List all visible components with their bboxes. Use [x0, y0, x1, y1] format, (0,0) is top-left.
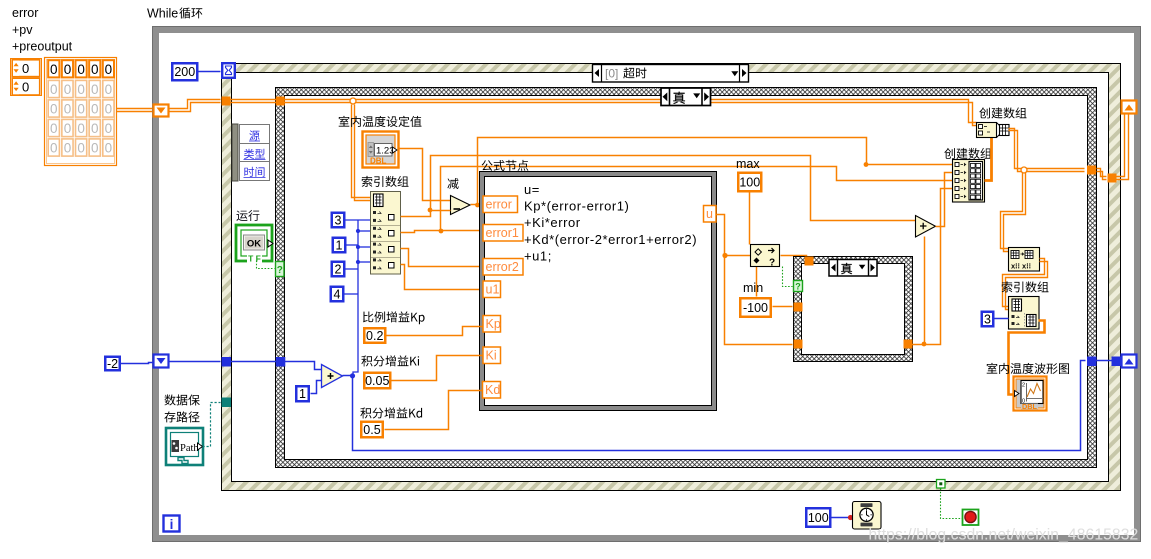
blue shift register (left)	[154, 355, 169, 368]
constant 1	[333, 238, 346, 253]
wait (ms) node	[853, 502, 882, 530]
wire 200 to timeout	[199, 71, 221, 73]
2D array wire event-to-case	[231, 99, 277, 101]
constant 200	[172, 63, 197, 80]
formula terminal u (output)	[704, 206, 717, 223]
svg-text:+preoutput: +preoutput	[12, 40, 73, 54]
increment node (+1)	[322, 365, 343, 388]
formula terminal error	[483, 196, 518, 213]
wire 1 to increment	[311, 381, 322, 394]
label 索引数组 (right)	[1002, 281, 1049, 292]
wire add out to build array	[936, 173, 953, 227]
svg-text:max: max	[736, 157, 760, 171]
svg-text:0: 0	[77, 62, 85, 77]
formula terminal u1	[483, 281, 501, 298]
svg-text:3: 3	[984, 312, 991, 326]
wire u down to inner case	[725, 256, 793, 345]
svg-text:0.05: 0.05	[365, 374, 389, 388]
boolean wire coerce to inner selector	[783, 267, 793, 287]
event data node fields	[240, 125, 270, 181]
svg-text:x⁝⁝ x⁝⁝: x⁝⁝ x⁝⁝	[1011, 262, 1031, 271]
constant 0.2	[364, 328, 385, 343]
wire 0.05 to Ki	[392, 356, 483, 381]
svg-text:1.23: 1.23	[376, 146, 395, 157]
svg-text:0: 0	[77, 102, 85, 117]
boolean OK button control	[236, 225, 273, 264]
wire 0.5 to Kd	[385, 391, 483, 430]
blue tunnel case right (i wire)	[1087, 357, 1097, 367]
wire build array out to upper	[985, 138, 992, 181]
constant 100 (max)	[738, 173, 761, 192]
label 创建数组 (upper)	[979, 107, 1026, 118]
svg-text:DBL: DBL	[370, 157, 387, 166]
svg-text:Kd: Kd	[485, 383, 500, 397]
wire -100 to coerce	[756, 267, 758, 297]
svg-text:0: 0	[77, 141, 85, 156]
junction increment out	[350, 373, 355, 378]
svg-text:0: 0	[91, 62, 99, 77]
svg-text:Ki: Ki	[486, 349, 497, 363]
label 索引数组 (left)	[362, 176, 409, 187]
svg-text:-100: -100	[743, 301, 768, 315]
wire -2 to shift register	[121, 363, 153, 364]
svg-text:0: 0	[105, 141, 113, 156]
svg-text:+Ki*error: +Ki*error	[524, 215, 581, 230]
svg-text:0: 0	[91, 82, 99, 97]
svg-text:4: 4	[334, 287, 341, 301]
label 室内温度设定值	[339, 116, 422, 127]
inner case selector terminal [?]	[794, 281, 803, 292]
svg-text:https://blog.csdn.net/weixin_4: https://blog.csdn.net/weixin_48615832	[869, 527, 1139, 544]
event timeout terminal (hourglass)	[222, 63, 235, 78]
2D wire event to shift register	[1117, 115, 1125, 177]
svg-text:0: 0	[50, 121, 58, 136]
label 公式节点	[482, 160, 529, 171]
svg-text:?: ?	[277, 265, 283, 276]
wire 100 to wait	[832, 517, 853, 519]
orange shift register (left)	[154, 105, 169, 117]
junction at build array row1	[864, 162, 869, 167]
event structure border	[222, 64, 1121, 491]
svg-text:1: 1	[336, 238, 343, 252]
svg-text:0: 0	[50, 82, 58, 97]
wire -100 to inner case tunnel	[773, 306, 793, 308]
svg-text:[0]: [0]	[605, 67, 618, 81]
wire row1 to error1	[401, 231, 483, 233]
i wire event to case	[231, 361, 277, 363]
svg-text:Kp: Kp	[486, 317, 501, 331]
junction u wire	[722, 253, 727, 258]
boolean wire OK to case selector	[257, 261, 275, 269]
stop button terminal	[963, 510, 979, 526]
formula terminal Kp	[483, 316, 501, 333]
blue tunnel on event border (i wire)	[222, 357, 232, 367]
svg-text:0: 0	[105, 82, 113, 97]
svg-text:While: While	[147, 7, 178, 21]
svg-text:0: 0	[64, 102, 72, 117]
wire 0.2 to Kp	[387, 327, 483, 336]
svg-text:1: 1	[299, 387, 306, 401]
i wire into event	[169, 361, 221, 363]
svg-text:error: error	[12, 6, 38, 20]
event selector text 超时	[623, 67, 646, 78]
case structure border	[276, 88, 1097, 468]
index wires from constants	[345, 220, 371, 375]
wire row0 up-right (to B)	[431, 156, 916, 221]
junction row0	[428, 208, 433, 213]
wire junction (array wire drop)	[350, 98, 356, 104]
2D wire interleave to index array	[1003, 259, 1045, 307]
inner case tunnel right (out)	[904, 340, 913, 349]
svg-text:0: 0	[77, 82, 85, 97]
wire subtract out to error	[471, 204, 483, 206]
interleave arrays node	[1009, 248, 1040, 272]
event data node bar	[232, 124, 238, 181]
svg-text:0: 0	[50, 62, 58, 77]
svg-text:+u1;: +u1;	[524, 248, 552, 263]
event data field 时间	[244, 167, 264, 177]
svg-text:?: ?	[769, 258, 775, 269]
junction inner case out	[922, 342, 927, 347]
event data field 类型	[244, 149, 265, 159]
svg-text:0: 0	[64, 82, 72, 97]
blue tunnel on case border (i wire)	[276, 357, 286, 367]
svg-text:0: 0	[64, 141, 72, 156]
svg-text:0: 0	[64, 62, 72, 77]
iteration terminal i	[164, 516, 180, 533]
path control 数据保存路径	[166, 428, 203, 465]
svg-text:0: 0	[77, 121, 85, 136]
inner case selector text 真	[841, 263, 852, 274]
svg-text:?: ?	[795, 282, 801, 292]
boolean tunnel on event bottom border	[937, 480, 946, 489]
constant 1 (increment)	[296, 386, 309, 401]
svg-text:0: 0	[91, 141, 99, 156]
svg-text:100: 100	[739, 175, 760, 189]
case selector label 真	[661, 88, 711, 106]
svg-text:OK: OK	[247, 239, 261, 250]
2D array control body	[45, 58, 117, 166]
waveform chart terminal	[1014, 377, 1047, 412]
orange tunnel case right	[1087, 166, 1096, 175]
constant 0.5	[361, 422, 383, 438]
blue tunnel event right (i wire)	[1112, 357, 1122, 367]
inner case selector 真	[829, 260, 877, 277]
svg-text:error: error	[486, 198, 512, 212]
teal tunnel on event border (path)	[222, 398, 232, 408]
svg-text:error1: error1	[486, 226, 519, 240]
svg-text:DBL: DBL	[1022, 402, 1038, 411]
junction 2D out	[1021, 167, 1027, 173]
svg-text:0: 0	[50, 141, 58, 156]
svg-text:0: 0	[105, 121, 113, 136]
wire u out to coerce	[717, 215, 751, 256]
i wire tunnels to shift register	[1097, 360, 1123, 362]
wire 100 to coerce	[749, 193, 751, 245]
svg-text:0: 0	[50, 102, 58, 117]
while loop border	[153, 27, 1141, 542]
svg-text:min: min	[743, 281, 763, 295]
svg-text:0: 0	[105, 102, 113, 117]
wire error net to right (A)	[478, 138, 953, 205]
numeric control 1.23 DBL	[363, 132, 399, 168]
2D wire case to event	[1097, 169, 1107, 177]
label 创建数组 (lower)	[944, 148, 991, 159]
svg-text:0: 0	[22, 61, 29, 76]
orange tunnel on case border (array wire)	[276, 97, 285, 106]
wire inner out up to add	[924, 237, 926, 345]
label 室内温度波形图	[987, 363, 1069, 374]
svg-text:+Kd*(error-2*error1+error2): +Kd*(error-2*error1+error2)	[524, 232, 697, 247]
add node	[916, 216, 936, 238]
constant 3 (right)	[982, 312, 994, 327]
label data save path line2	[164, 411, 199, 422]
case selector terminal [?]	[276, 262, 285, 277]
in range and coerce node	[751, 245, 780, 269]
svg-text:0: 0	[105, 62, 113, 77]
svg-text:0: 0	[91, 102, 99, 117]
wire row0 to subtract	[401, 211, 451, 217]
boolean wire to stop button	[941, 489, 963, 519]
constant 0.05	[364, 373, 390, 389]
constant 2	[332, 262, 345, 277]
inner case structure border	[794, 257, 913, 362]
path wire to tunnel	[203, 403, 221, 447]
constant -2	[105, 357, 120, 371]
svg-text:200: 200	[174, 65, 195, 79]
svg-text:0: 0	[64, 121, 72, 136]
label 运行	[236, 210, 259, 221]
2D array wire drop to index array	[352, 105, 371, 198]
inner case tunnel top	[805, 257, 814, 266]
index array node (right)	[1009, 297, 1040, 330]
constant 4	[331, 287, 344, 302]
formula node frame	[480, 172, 717, 411]
2D array wire across case top	[285, 100, 977, 123]
svg-text:-2: -2	[107, 357, 118, 371]
svg-text:u1: u1	[486, 283, 500, 297]
build array node (upper)	[977, 123, 1010, 138]
wire inner case out	[913, 189, 953, 345]
svg-text:u=: u=	[524, 182, 540, 197]
label 积分增益Ki	[361, 355, 419, 366]
label While loop	[179, 7, 202, 18]
svg-text:i: i	[170, 517, 174, 532]
i wire to increment	[285, 362, 322, 370]
blue shift register (right)	[1122, 355, 1137, 368]
2D array wire inside loop	[169, 100, 221, 109]
wire row3 to u1	[401, 265, 483, 290]
build array node (lower)	[953, 160, 985, 203]
svg-text:+pv: +pv	[12, 23, 33, 37]
svg-text:2: 2	[335, 262, 342, 276]
2D array wire to while loop	[117, 108, 153, 110]
inner case tunnel left (min)	[794, 303, 803, 312]
svg-text:0: 0	[22, 80, 29, 95]
label 比例增益Kp	[363, 311, 425, 324]
svg-text:Path: Path	[180, 443, 199, 454]
label 积分增益Kd	[360, 407, 422, 418]
wire row2 to error2	[401, 249, 483, 267]
svg-text:u: u	[706, 207, 713, 221]
2D wire upper build array out	[1009, 129, 1085, 169]
svg-text:Kp*(error-error1): Kp*(error-error1)	[524, 199, 629, 214]
constant -100 (min)	[740, 298, 771, 317]
svg-text:0.5: 0.5	[363, 423, 380, 437]
array index control frame	[11, 59, 42, 96]
formula terminal error2	[483, 259, 523, 276]
subtract node	[451, 196, 471, 215]
label data save path line1	[165, 394, 200, 405]
index array node	[371, 192, 401, 275]
2D wire down to interleave	[1001, 173, 1023, 249]
1D wire to waveform chart	[1009, 321, 1045, 395]
svg-text:0: 0	[91, 121, 99, 136]
i wire down and along bottom	[343, 361, 1086, 451]
label 减	[447, 178, 458, 189]
formula terminal error1	[483, 225, 523, 242]
svg-text:T F: T F	[248, 254, 261, 264]
inner case tunnel left low (u)	[794, 340, 803, 349]
formula terminal Ki	[483, 347, 501, 364]
svg-text:0.2: 0.2	[366, 329, 383, 343]
wire 3 to index array	[995, 318, 1009, 320]
coercion dot	[848, 515, 853, 520]
wire error1 up-right (C)	[441, 167, 953, 231]
formula terminal Kd	[483, 382, 501, 399]
junction subtract out	[475, 203, 480, 208]
constant 100 (wait)	[806, 508, 830, 527]
constant 3	[332, 213, 345, 228]
junction error1	[439, 229, 444, 234]
svg-text:100: 100	[808, 511, 829, 525]
setpoint wire to subtract	[399, 149, 451, 201]
orange tunnel event right	[1108, 174, 1117, 183]
orange shift register (right)	[1122, 101, 1137, 114]
case selector text 真	[673, 92, 685, 104]
svg-text:2: 2	[1022, 383, 1025, 389]
wire coerce out to inner case	[781, 256, 807, 259]
svg-text:error2: error2	[486, 260, 519, 274]
svg-text:3: 3	[335, 213, 342, 227]
orange tunnel on event border (array wire)	[222, 97, 231, 106]
event data field 源	[249, 130, 259, 140]
event structure selector label [0] 超时	[593, 65, 749, 83]
